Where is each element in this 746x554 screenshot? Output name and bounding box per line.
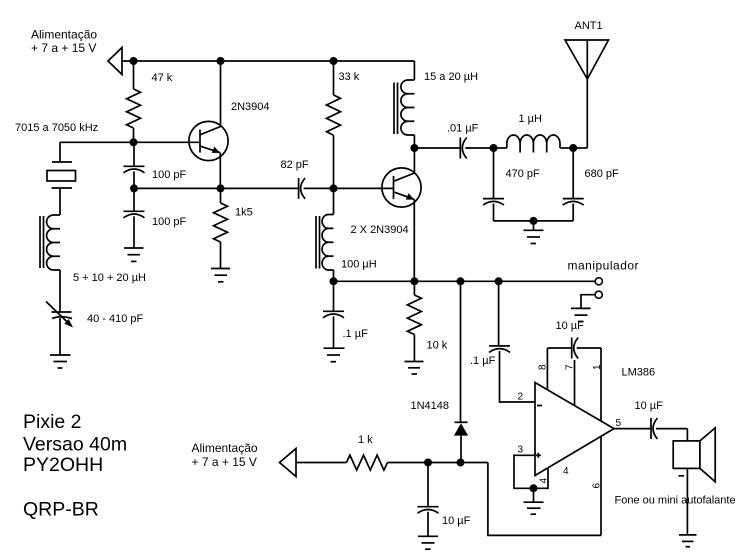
node emitter-10k	[410, 277, 418, 285]
ground 100pF branch	[124, 248, 144, 261]
label Alimentação bottom	[192, 441, 258, 469]
svg-text:2: 2	[518, 392, 524, 403]
wire pin 1	[600, 348, 602, 421]
capacitor 82 pF	[281, 159, 334, 199]
node supply-10µF	[424, 459, 432, 467]
node audio branch	[495, 277, 503, 285]
svg-text:10 µF: 10 µF	[635, 400, 664, 412]
node pin4 ground	[530, 484, 538, 492]
wire pin 3 loop	[514, 455, 548, 488]
ground xtal branch	[50, 355, 71, 368]
ground 10µF branch	[418, 536, 438, 549]
svg-text:5 + 10 + 20 µH: 5 + 10 + 20 µH	[73, 272, 146, 284]
resistor 33 k	[327, 61, 360, 188]
wire LPF ground bus	[494, 220, 574, 222]
inductor 1 µH	[494, 113, 574, 153]
wire 1k to diode	[388, 462, 488, 464]
inductor 5 + 10 + 20 µH	[40, 215, 146, 284]
inductor 100 µH	[316, 188, 377, 281]
diode 1N4148	[411, 400, 469, 462]
svg-text:680 pF: 680 pF	[585, 168, 620, 180]
capacitor 10 µF output	[635, 400, 688, 439]
svg-text:1N4148: 1N4148	[411, 400, 450, 412]
svg-text:4: 4	[563, 466, 569, 477]
node LPF output	[569, 144, 577, 152]
resistor 10 k	[407, 281, 447, 361]
svg-text:6: 6	[592, 483, 603, 489]
node Q1 emitter junction	[217, 184, 225, 192]
svg-text:1 k: 1 k	[358, 434, 373, 446]
svg-text:QRP-BR: QRP-BR	[23, 499, 99, 521]
ground .1µF branch	[324, 348, 345, 362]
svg-text:Pixie 2: Pixie 2	[23, 411, 82, 433]
capacitor 10 µF gain	[556, 320, 602, 359]
svg-text:manipulador: manipulador	[568, 259, 640, 273]
node diode branch	[457, 277, 465, 285]
svg-text:7015 a 7050 kHz: 7015 a 7050 kHz	[15, 122, 98, 134]
terminal key sleeve	[595, 291, 602, 298]
node LPF input	[490, 144, 498, 152]
wire to speaker	[686, 429, 688, 441]
wire feedback row	[134, 187, 299, 189]
node rail-Q1 collector	[217, 57, 225, 65]
svg-text:100 µH: 100 µH	[341, 259, 377, 271]
capacitor 100 pF lower	[124, 188, 187, 248]
node rail-33k	[330, 57, 338, 65]
resistor 1k5	[214, 188, 253, 268]
svg-text:3: 3	[518, 445, 524, 456]
wire pin 7	[574, 360, 576, 406]
speaker LS1	[615, 428, 736, 535]
wire oscillator row	[60, 141, 200, 143]
ground key	[571, 308, 591, 321]
svg-text:ANT1: ANT1	[575, 20, 603, 32]
capacitor .01 µF	[447, 123, 494, 159]
transistor Q2 2 X 2N3904	[351, 148, 422, 281]
ground op-amp	[524, 502, 544, 514]
capacitor 470 pF	[483, 148, 540, 221]
wire supply to pin6	[488, 463, 601, 536]
svg-text:.1 µF: .1 µF	[470, 355, 496, 367]
ground speaker	[679, 535, 697, 547]
svg-text:2 X 2N3904: 2 X 2N3904	[351, 224, 409, 236]
svg-text:100 pF: 100 pF	[152, 169, 187, 181]
svg-text:1: 1	[592, 364, 603, 370]
wire output pin 5	[614, 428, 651, 430]
node xtal-47k junction	[130, 138, 138, 146]
capacitor .1 µF audio input	[470, 281, 535, 402]
node RF output	[410, 144, 418, 152]
svg-text:PY2OHH: PY2OHH	[23, 454, 103, 476]
svg-text:.01 µF: .01 µF	[447, 123, 479, 135]
wire diode column	[460, 281, 462, 422]
svg-text:1 µH: 1 µH	[519, 113, 543, 125]
wire Q2 base	[334, 187, 394, 189]
node rail-47k	[130, 57, 138, 65]
wire antenna feed	[573, 147, 587, 149]
wire key ground	[581, 295, 595, 309]
resistor 1 k	[347, 434, 388, 470]
ground 1k5 branch	[211, 269, 230, 282]
node feedback junction	[130, 184, 138, 192]
capacitor 10 µF supply	[418, 463, 471, 537]
antenna ANT1	[565, 20, 609, 148]
svg-text:82 pF: 82 pF	[281, 159, 309, 171]
wire pin 6	[600, 437, 602, 536]
svg-text:1k5: 1k5	[235, 207, 253, 219]
wire VCC rail	[122, 60, 414, 62]
svg-text:40 - 410 pF: 40 - 410 pF	[87, 313, 144, 325]
svg-text:7: 7	[565, 364, 576, 370]
wire flag to 1k	[296, 462, 347, 464]
svg-text:47 k: 47 k	[152, 72, 173, 84]
svg-text:33 k: 33 k	[339, 71, 360, 83]
svg-text:15 a 20 µH: 15 a 20 µH	[424, 71, 478, 83]
node driver base junction	[330, 184, 338, 192]
capacitor variable 40 - 410 pF	[46, 270, 144, 355]
svg-text:5: 5	[616, 418, 622, 429]
svg-text:470 pF: 470 pF	[506, 168, 541, 180]
wire to coupling cap	[414, 147, 460, 149]
svg-text:2N3904: 2N3904	[231, 101, 270, 113]
svg-text:100 pF: 100 pF	[152, 216, 187, 228]
capacitor .1 µF left	[323, 281, 368, 348]
transistor Q1 2N3904	[189, 61, 270, 188]
power flag VCC bottom	[280, 449, 297, 477]
svg-text:Alimentação: Alimentação	[31, 28, 97, 42]
ground LPF	[524, 221, 544, 244]
svg-text:10 µF: 10 µF	[442, 515, 471, 527]
terminal key tip	[595, 278, 602, 285]
svg-text:.1 µF: .1 µF	[343, 328, 369, 340]
capacitor 680 pF	[563, 148, 619, 221]
op-amp U1 LM386	[518, 367, 656, 478]
node LPF ground	[530, 217, 538, 225]
svg-text:LM386: LM386	[622, 367, 656, 379]
svg-text:10 k: 10 k	[427, 340, 448, 352]
label Alimentação top	[31, 28, 97, 56]
power flag VCC top	[108, 48, 122, 75]
svg-text:Fone ou mini autofalante: Fone ou mini autofalante	[615, 495, 736, 507]
svg-text:Versao 40m: Versao 40m	[23, 434, 127, 456]
title block	[23, 411, 127, 521]
ground 10k branch	[405, 362, 424, 375]
svg-text:+ 7 a + 15 V: + 7 a + 15 V	[31, 41, 96, 55]
wire pin 8	[546, 348, 548, 390]
inductor 15 a 20 µH	[394, 61, 478, 148]
resistor 47 k	[127, 61, 173, 142]
crystal Y1	[47, 142, 76, 215]
svg-text:8: 8	[538, 364, 549, 370]
svg-text:+ 7 a + 15 V: + 7 a + 15 V	[192, 455, 257, 469]
wire gain cap top	[547, 347, 571, 349]
node supply-diode	[457, 459, 465, 467]
node coil-bypass	[330, 277, 338, 285]
wire pin4 ground lead	[533, 488, 535, 502]
svg-text:10 µF: 10 µF	[556, 320, 585, 332]
svg-text:Alimentação: Alimentação	[192, 441, 258, 455]
capacitor 100 pF upper	[124, 142, 187, 188]
wire main bus row	[334, 280, 596, 282]
